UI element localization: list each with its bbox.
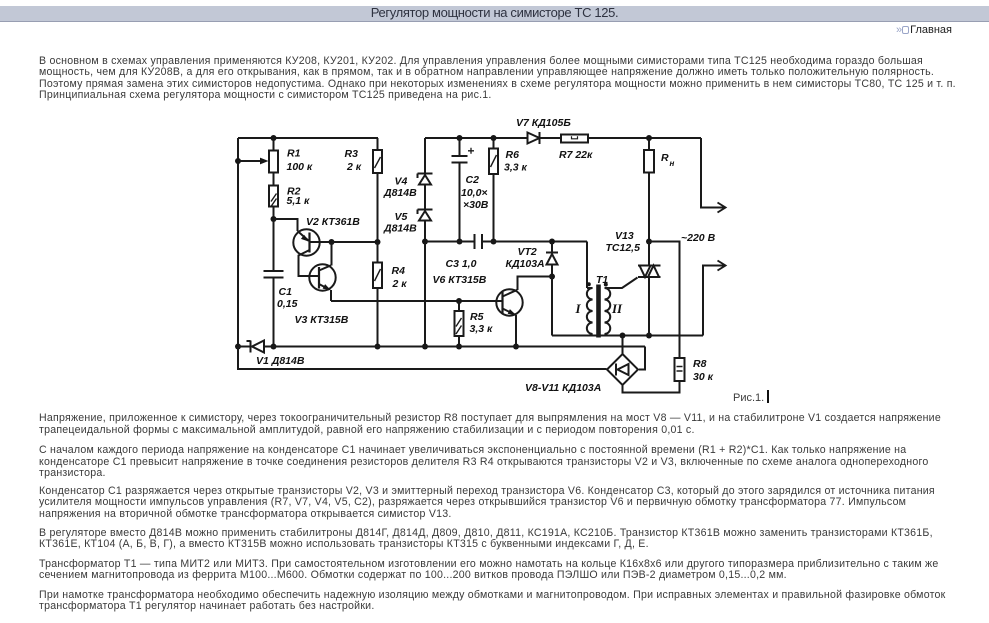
wire V3 emitter to V6 base <box>331 300 502 302</box>
resistor R3 2k <box>373 138 382 242</box>
wire output terminal 2 (bottom) with arrow <box>703 261 726 336</box>
svg-text:V2 КТ361В: V2 КТ361В <box>306 216 360 228</box>
svg-text:С1: С1 <box>279 286 293 298</box>
svg-text:~220 В: ~220 В <box>681 232 716 244</box>
transformer phase dot secondary <box>604 283 608 287</box>
wire outer mains rail (left drop and bottom run) <box>238 347 607 370</box>
wire transformer bottom return rail <box>552 335 703 337</box>
wire pulse line with capacitor C3 gap <box>425 241 587 243</box>
transistor V2 KT361V (PNP) <box>293 229 331 276</box>
resistor R6 3.3k <box>489 138 498 242</box>
node C2 bottom junction <box>457 239 463 245</box>
value label R1 <box>287 148 313 174</box>
svg-text:II: II <box>611 301 623 316</box>
value label Rn <box>661 152 675 168</box>
svg-text:С2: С2 <box>466 174 480 186</box>
value label C3 <box>446 258 477 270</box>
svg-text:3,3 к: 3,3 к <box>470 323 494 335</box>
svg-text:3,3 к: 3,3 к <box>504 162 528 174</box>
svg-text:I: I <box>575 301 582 316</box>
capacitor C1 0.15 <box>264 219 284 347</box>
node V2 base / V3 collector junction <box>329 239 335 245</box>
wire secondary to triac gate <box>605 278 638 289</box>
svg-text:V6 КТ315В: V6 КТ315В <box>433 274 487 286</box>
diode V7 KD105B <box>528 132 540 144</box>
label V8-V11 <box>525 382 601 394</box>
svg-text:R7 22к: R7 22к <box>559 149 593 161</box>
wire V2 emitter lead <box>274 219 298 231</box>
label V7 <box>516 117 571 129</box>
svg-text:R5: R5 <box>470 311 484 323</box>
svg-text:100 к: 100 к <box>287 161 313 173</box>
node VT2 cathode / V6 collector junction <box>549 274 555 280</box>
value label R5 <box>470 311 494 335</box>
node R2/C1/V2 emitter junction <box>271 216 277 222</box>
svg-text:R1: R1 <box>287 148 301 160</box>
transistor V3 KT315V (NPN) <box>309 242 335 301</box>
svg-text:30 к: 30 к <box>693 371 714 383</box>
figure caption Рис.1 with text cursor bar <box>733 390 769 404</box>
transformer phase dot primary <box>587 282 591 286</box>
svg-text:5,1 к: 5,1 к <box>287 195 311 207</box>
wire top-left supply rail <box>238 137 378 139</box>
label V13 <box>606 230 641 254</box>
wire top supply rail right section <box>425 137 701 139</box>
svg-text:V13: V13 <box>615 230 634 242</box>
label V2 <box>306 216 360 228</box>
resistor R4 2k <box>373 242 382 347</box>
wire potentiometer wiper with arrow <box>238 158 269 165</box>
wire zener chain drop from rail <box>424 138 426 174</box>
node zener bottom on ground rail <box>422 344 428 350</box>
value label R2 <box>287 186 311 208</box>
svg-text:VТ2: VТ2 <box>518 246 537 258</box>
label winding I <box>575 301 582 316</box>
value label C1 <box>277 286 298 310</box>
node zener chain / pulse line junction <box>422 239 428 245</box>
svg-text:V4: V4 <box>395 176 408 188</box>
node triac bottom on return rail <box>646 333 652 339</box>
node R6 bottom junction <box>491 239 497 245</box>
label winding II <box>611 301 623 316</box>
svg-text:Д814В: Д814В <box>383 223 417 235</box>
label T1 <box>596 274 608 286</box>
node R5 bottom on ground rail <box>456 344 462 350</box>
node triac top / output junction <box>646 239 652 245</box>
zener diode V4 D814V <box>418 174 433 210</box>
svg-text:R6: R6 <box>506 149 520 161</box>
label V4 <box>383 176 417 200</box>
node R1 top junction <box>271 135 277 141</box>
bridge rectifier V8-V11 KD103A <box>607 336 680 393</box>
transistor V6 KT315V (NPN) <box>496 289 522 346</box>
svg-text:×30В: ×30В <box>463 199 489 211</box>
svg-text:R8: R8 <box>693 358 707 370</box>
label V6 <box>433 274 487 286</box>
resistor R7 22k (horizontal) <box>561 135 588 143</box>
wire left vertical rail <box>237 138 239 347</box>
diode VT2 KD103A <box>546 242 558 277</box>
wire inner ground rail <box>264 346 645 348</box>
svg-text:2 к: 2 к <box>392 278 408 290</box>
svg-text:V7 КД105Б: V7 КД105Б <box>516 117 571 129</box>
svg-text:0,15: 0,15 <box>277 298 298 310</box>
wire base line to R3/R4 divider <box>332 241 378 243</box>
resistor R2 5.1k <box>269 186 278 220</box>
value label R7 <box>559 149 593 161</box>
triac V13 TS125 <box>638 242 661 336</box>
label mains voltage ~220V <box>681 232 716 244</box>
svg-text:R: R <box>661 152 669 164</box>
wire output terminal 1 (top) with arrow <box>701 138 726 213</box>
node R6 top junction <box>491 135 497 141</box>
wire pulse line corner to primary winding <box>586 242 588 289</box>
svg-text:10,0×: 10,0× <box>461 187 488 199</box>
label V3 <box>295 314 349 326</box>
label VT2 <box>506 246 545 270</box>
value label R8 <box>693 358 714 383</box>
node load resistor top junction <box>646 135 652 141</box>
node wiper tap on left rail <box>235 158 241 164</box>
node C2 top junction <box>457 135 463 141</box>
label V5 <box>383 211 417 235</box>
wire VT2 cathode to V6 collector <box>518 277 553 291</box>
value label C2 <box>461 174 489 211</box>
transformer T1 core <box>596 285 601 338</box>
value label R4 <box>392 265 408 290</box>
resistor R8 30k <box>649 242 685 382</box>
svg-text:R3: R3 <box>345 148 359 160</box>
svg-text:V8-V11 КД103А: V8-V11 КД103А <box>525 382 601 394</box>
svg-text:2 к: 2 к <box>346 161 362 173</box>
node bridge top on return rail <box>620 333 626 339</box>
node VT2 anode junction <box>549 239 555 245</box>
zener diode V1 D814V (in ground rail) <box>238 341 264 353</box>
wire zener chain to ground rail <box>424 242 426 347</box>
svg-text:V5: V5 <box>395 211 408 223</box>
svg-text:Д814В: Д814В <box>383 187 417 199</box>
label V1 <box>256 355 305 367</box>
node R5 top junction <box>456 298 462 304</box>
resistor R5 3.3k <box>455 301 464 347</box>
svg-text:КД103А: КД103А <box>506 258 545 270</box>
node C1 bottom on ground rail <box>271 344 277 350</box>
svg-text:С3 1,0: С3 1,0 <box>446 258 477 270</box>
capacitor C2 10uF 30V (electrolytic, + mark) <box>452 138 475 242</box>
svg-text:н: н <box>670 159 675 168</box>
transformer T1 secondary winding II <box>605 288 611 336</box>
zener diode V5 D814V <box>418 210 433 242</box>
svg-text:R4: R4 <box>392 265 406 277</box>
svg-text:V3 КТ315В: V3 КТ315В <box>295 314 349 326</box>
svg-text:V1 Д814В: V1 Д814В <box>256 355 305 367</box>
resistor R1 100k (variable) <box>269 138 278 186</box>
node R3/R4 junction <box>375 239 381 245</box>
svg-text:Т1: Т1 <box>596 274 608 286</box>
wire ground rail to bridge output (right vertex) <box>639 347 645 370</box>
resistor Rn (load) <box>644 138 654 242</box>
transformer T1 primary winding I <box>587 288 593 336</box>
svg-text:ТС12,5: ТС12,5 <box>606 242 641 254</box>
node left corner of ground rail <box>235 344 241 350</box>
value label R6 <box>504 149 528 174</box>
wire VT2 cathode down to transformer return <box>551 277 553 336</box>
node R4 bottom on ground rail <box>375 344 381 350</box>
node V6 emitter on ground rail <box>513 344 519 350</box>
capacitor C3 1.0 <box>475 234 483 249</box>
value label R3 <box>345 148 362 173</box>
